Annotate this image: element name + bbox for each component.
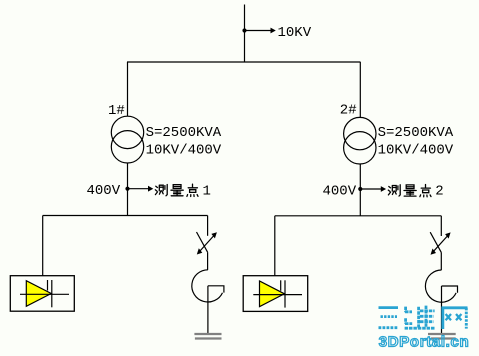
svg-text:2#: 2# (340, 103, 357, 119)
svg-text:400V: 400V (323, 183, 357, 199)
svg-text:1#: 1# (108, 103, 125, 119)
svg-text:2: 2 (435, 184, 443, 200)
svg-text:10KV/400V: 10KV/400V (146, 143, 222, 159)
svg-text:S=2500KVA: S=2500KVA (378, 125, 454, 141)
svg-text:10KV: 10KV (278, 25, 312, 41)
svg-text:1: 1 (203, 183, 211, 199)
svg-text:400V: 400V (87, 183, 121, 199)
svg-text:10KV/400V: 10KV/400V (378, 143, 454, 159)
svg-text:S=2500KVA: S=2500KVA (146, 125, 222, 141)
svg-text:3DPortal.cn: 3DPortal.cn (379, 333, 470, 350)
